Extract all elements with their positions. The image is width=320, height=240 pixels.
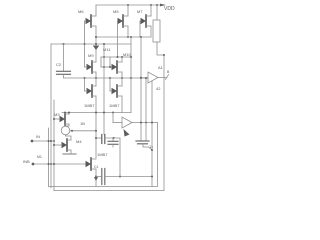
current source circle bbox=[61, 126, 70, 135]
wire M3 source up bbox=[68, 113, 70, 115]
transistor M14 (NMOS right) bbox=[109, 85, 122, 108]
node dot y131-x96 bbox=[95, 130, 97, 132]
wire x141 vertical bbox=[140, 37, 142, 141]
svg-text:M4: M4 bbox=[76, 139, 82, 144]
transistor M13 (NMOS left) bbox=[84, 85, 96, 108]
wire M7 drain down bbox=[150, 26, 152, 37]
node dot x152-y176 bbox=[151, 176, 153, 178]
node dot gate lead x104 bbox=[103, 66, 105, 68]
wire x51 outer left bbox=[50, 44, 52, 188]
node dot INB-x54 bbox=[53, 163, 55, 165]
node dot M3 source bbox=[68, 112, 70, 114]
node dot y112-x113 bbox=[112, 112, 114, 114]
node dot x54-M4gate bbox=[53, 144, 55, 146]
wire x131 vertical bbox=[130, 37, 132, 113]
wire M3 drain down bbox=[66, 124, 70, 126]
node dot y78-x85 bbox=[84, 77, 86, 79]
wire M13 gate up bbox=[84, 78, 86, 91]
node dot y78-x122 bbox=[121, 77, 123, 79]
node dot IN-x51 bbox=[50, 140, 52, 142]
svg-text:1MB7: 1MB7 bbox=[97, 152, 108, 157]
node dot rail-M5 bbox=[127, 4, 129, 6]
node dot x152-y122 bbox=[151, 122, 153, 124]
svg-text:1MB7: 1MB7 bbox=[84, 103, 95, 108]
svg-text:1B: 1B bbox=[80, 121, 85, 126]
wire M5 drain down bbox=[127, 26, 129, 37]
wire mirror bus y37 bbox=[96, 36, 151, 38]
node dot rail-M7 bbox=[150, 4, 152, 6]
transistor M6 bbox=[78, 9, 96, 27]
node VDD arrow end bbox=[160, 4, 166, 7]
node dot bias-M6drain bbox=[95, 43, 97, 45]
svg-text:A1: A1 bbox=[158, 65, 164, 70]
wire x48.5 vertical bbox=[48, 128, 50, 187]
transistor M5 bbox=[113, 9, 128, 27]
node dot rail-R bbox=[156, 4, 158, 6]
wire x54 vertical bbox=[53, 100, 55, 191]
node dot IN-x48.5 bbox=[48, 140, 50, 142]
capacitor C1 bbox=[94, 165, 152, 185]
node dot y57-x117 bbox=[117, 56, 119, 58]
wire A2 input from y112 bbox=[112, 113, 114, 123]
wire x157 vertical bbox=[157, 123, 159, 187]
wire y138 right bbox=[105, 137, 120, 139]
wire x152 buffer ground vertical bbox=[151, 81, 153, 187]
node dot y138-x113 bbox=[113, 137, 115, 139]
wire stage2 node y78 bbox=[64, 77, 149, 79]
node dot y37-x96 bbox=[95, 36, 97, 38]
capacitor C2 bbox=[56, 44, 71, 78]
node dot y112-x104 bbox=[103, 112, 105, 114]
svg-text:M5: M5 bbox=[113, 9, 119, 14]
wire M10 drain down bbox=[121, 72, 123, 78]
wire M13 source down bbox=[95, 96, 97, 158]
svg-text:42: 42 bbox=[156, 86, 161, 91]
wire R1 bottom bbox=[157, 42, 164, 55]
wire M7 source up bbox=[150, 5, 152, 16]
wire R1 top bbox=[156, 5, 158, 20]
wire stage1 bus y112 bbox=[62, 112, 131, 114]
wire gate lead y67 bbox=[101, 66, 114, 68]
wire y138 left bbox=[96, 137, 101, 139]
wire M5 gate down bbox=[117, 21, 119, 57]
svg-text:M1: M1 bbox=[37, 155, 42, 159]
node dot bus37-x141 bbox=[140, 36, 142, 38]
node dot M2 source-cap bbox=[95, 176, 97, 178]
buffer A1 bbox=[141, 65, 166, 91]
transistor M4 (NMOS below circle) bbox=[54, 139, 82, 151]
wire M14 source down bbox=[121, 96, 123, 113]
wire M4 drain up bbox=[66, 136, 72, 140]
svg-text:IN: IN bbox=[36, 134, 40, 139]
input pin INB bbox=[23, 155, 88, 165]
wire M4 source down bbox=[70, 150, 72, 153]
wire x146 from y78 down to cap C3 bbox=[145, 78, 147, 141]
node dot x104-y57 bbox=[103, 56, 105, 58]
transistor M7 bbox=[137, 9, 151, 27]
resistor R1 box bbox=[153, 20, 160, 42]
svg-text:1MB7: 1MB7 bbox=[109, 103, 120, 108]
wire M14 drain up bbox=[121, 78, 123, 86]
wire M6 drain down to M9 source bbox=[95, 26, 97, 62]
wire y57 corner down right bbox=[109, 57, 111, 67]
capacitor C4 plates bbox=[101, 135, 103, 144]
node dot bus37-x131 bbox=[130, 36, 132, 38]
node dot x146-y78 bbox=[145, 77, 147, 79]
wire M5 source up bbox=[127, 5, 129, 16]
node dot x104-y44 bbox=[103, 43, 105, 45]
node dot INB-x51 bbox=[50, 163, 52, 165]
transistor M10 (stage2 PMOS right) bbox=[112, 52, 132, 73]
wire circle out right y131 bbox=[70, 130, 96, 132]
node dot y78-x131 bbox=[130, 77, 132, 79]
node dot A2out-x146 bbox=[145, 122, 147, 124]
node dot y176-x120 bbox=[119, 176, 121, 178]
svg-text:INB: INB bbox=[23, 159, 30, 164]
wire bias line y44 bbox=[51, 43, 131, 45]
node dot y138-x96 bbox=[95, 137, 97, 139]
wire M13 drain up bbox=[95, 78, 97, 86]
ground bar under M4 bbox=[63, 153, 76, 155]
node dot M5 drain bbox=[127, 36, 129, 38]
output pin B tick bbox=[166, 75, 169, 80]
wire M7 gate down bbox=[139, 21, 141, 37]
node dot IN-x54 bbox=[53, 140, 55, 142]
wire VDD rail bbox=[96, 4, 164, 6]
wire M10 gate vertical x104 bbox=[103, 44, 105, 135]
svg-text:C2: C2 bbox=[56, 62, 62, 67]
wire right outer vertical bbox=[163, 55, 165, 191]
node dot gate lead x110 bbox=[109, 66, 111, 68]
wire latch rail y57 bbox=[101, 56, 131, 58]
svg-text:M3: M3 bbox=[54, 112, 60, 117]
node dot gate-bias bbox=[84, 43, 86, 45]
wire y57 corner down left bbox=[100, 57, 102, 67]
transistor M9 (stage2 PMOS left) bbox=[85, 53, 97, 73]
node dot A2out-x141 bbox=[140, 122, 142, 124]
svg-text:C1: C1 bbox=[94, 165, 99, 169]
node dot R-right bbox=[163, 54, 165, 56]
svg-text:M6: M6 bbox=[78, 9, 84, 14]
svg-text:B: B bbox=[167, 70, 170, 74]
svg-text:M7: M7 bbox=[137, 9, 143, 14]
wire M14 gate vertical bbox=[109, 78, 111, 91]
node dot x152-y150 bbox=[151, 149, 153, 151]
wire M2 source down bbox=[95, 169, 97, 187]
node dot x131-y57 bbox=[130, 56, 132, 58]
wire M6 source up bbox=[95, 5, 97, 16]
node dot y57-x122 bbox=[121, 56, 123, 58]
node dot y131-x72 bbox=[71, 130, 73, 132]
capacitor Cm bbox=[108, 138, 118, 147]
svg-text:M10: M10 bbox=[123, 52, 132, 57]
node dot y78-x110 bbox=[109, 77, 111, 79]
node dot y78-x141 bbox=[140, 77, 142, 79]
wire circle bottom bbox=[65, 135, 67, 136]
wire bottom y186 bbox=[49, 186, 158, 188]
svg-text:M9: M9 bbox=[88, 53, 94, 58]
wire x120 vertical bbox=[119, 138, 121, 177]
node dot x54-M3gate bbox=[53, 118, 55, 120]
node dot y78-x96 bbox=[95, 77, 97, 79]
node dot bias-C2 bbox=[63, 43, 65, 45]
svg-text:1k: 1k bbox=[149, 144, 153, 149]
input pin IN bbox=[31, 134, 54, 142]
wire M10 source up bbox=[121, 57, 123, 62]
current arrow on x96 wire bbox=[93, 46, 99, 51]
wire M6 gate down to M9 gate bbox=[84, 21, 86, 67]
buffer A2 bbox=[113, 117, 158, 137]
node dot INB-x48.5 bbox=[48, 163, 50, 165]
transistor M3 (first stage PMOS) bbox=[54, 112, 69, 125]
M2 source arrow bbox=[94, 177, 98, 181]
svg-text:VDD: VDD bbox=[164, 6, 175, 12]
node dot y112-x96 bbox=[95, 112, 97, 114]
transistor M2 bbox=[86, 152, 109, 170]
wire M9 drain down bbox=[95, 72, 97, 78]
wire bottom y190 bbox=[54, 190, 164, 192]
node dot A1 in bbox=[140, 77, 142, 79]
capacitor C3 bbox=[136, 141, 153, 150]
